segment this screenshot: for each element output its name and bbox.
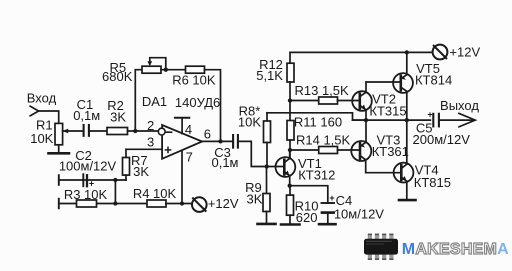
wire C3 to VT1 base: [239, 141, 283, 166]
svg-text:Выход: Выход: [440, 98, 479, 113]
resistor R8: [266, 113, 268, 121]
wire R3 R4 line: [59, 203, 147, 205]
capacitor C2: [82, 174, 84, 186]
wire R6 to output node: [205, 70, 221, 142]
capacitor C5: [432, 114, 434, 127]
svg-text:DA1: DA1: [142, 94, 167, 109]
svg-text:10K: 10K: [238, 114, 261, 129]
wire VT2 collector to VT5 base: [366, 82, 401, 92]
capacitor C4: [290, 186, 328, 203]
wire VT3 emitter: [365, 120, 367, 142]
transistor VT5: [393, 73, 413, 93]
svg-text:R11 160: R11 160: [294, 114, 342, 129]
node junction R3/R4 line: [113, 201, 117, 205]
svg-text:КТ815: КТ815: [414, 175, 451, 190]
svg-text:140УД6: 140УД6: [175, 95, 220, 110]
wire R1 bottom to ground: [58, 145, 60, 152]
svg-text:КТ315: КТ315: [369, 103, 406, 118]
transistor VT2: [352, 91, 372, 111]
transistor VT4: [394, 163, 414, 183]
node junction R11/R14: [288, 148, 292, 152]
svg-text:10K: 10K: [30, 131, 53, 146]
resistor R9: [266, 167, 268, 194]
node Вход input terminal arrow: [30, 106, 38, 116]
node junction R12/R13: [288, 98, 292, 102]
svg-text:0,1м: 0,1м: [73, 108, 100, 123]
resistor R4: [147, 200, 166, 207]
wire branch vertical: [114, 180, 116, 204]
wire VT5 collector: [406, 91, 408, 120]
node junction emitter rail left: [364, 118, 368, 122]
svg-text:3K: 3K: [133, 164, 149, 179]
wire feedback left vertical: [135, 70, 142, 131]
wire C1 to R2: [90, 130, 107, 132]
svg-text:3K: 3K: [247, 191, 263, 206]
node Выход output arrow: [459, 113, 475, 126]
node junction output/feedback: [218, 139, 222, 143]
capacitor C1: [83, 125, 85, 136]
wire R4 to supply: [166, 203, 192, 205]
svg-text:100м/12V: 100м/12V: [59, 159, 117, 174]
node junction C2/R3 branch: [113, 178, 117, 182]
ground under VT4: [399, 199, 416, 202]
svg-text:+: +: [329, 193, 334, 203]
wire op-amp pin3: [126, 148, 162, 150]
node junction VT1 emitter: [288, 184, 292, 188]
resistor R12: [287, 63, 294, 82]
wire input to R1 top: [39, 111, 59, 123]
svg-text:10м/12V: 10м/12V: [334, 207, 384, 222]
power +12V terminal top: [433, 45, 448, 60]
svg-text:3: 3: [147, 134, 154, 149]
svg-text:+12V: +12V: [449, 45, 480, 60]
node junction R5 tap: [164, 68, 168, 72]
svg-text:R3 10K: R3 10K: [64, 187, 108, 202]
wire R8 top to emitter rail: [267, 113, 366, 120]
svg-text:+: +: [427, 109, 432, 119]
ground under R10: [281, 223, 300, 226]
wire R11 to VT1 collector: [289, 140, 291, 158]
svg-text:+12V: +12V: [208, 196, 239, 211]
wire R5 to R6: [161, 69, 186, 71]
svg-text:0,1м: 0,1м: [211, 155, 238, 170]
wire VT2 emitter: [365, 110, 367, 120]
svg-text:Вход: Вход: [27, 91, 57, 106]
node junction top rail: [405, 50, 409, 54]
resistor R2: [107, 128, 128, 135]
ground under R9: [258, 223, 276, 226]
resistor R13: [290, 100, 319, 102]
op-amp DA1 triangle: [162, 125, 202, 159]
wire C5 to output arrow: [440, 119, 473, 121]
node junction rail VT5/VT4: [405, 118, 409, 122]
wire emitter rail: [353, 119, 431, 121]
wire pin 7 down: [181, 151, 183, 204]
svg-text:КТ814: КТ814: [415, 73, 452, 88]
resistor R6: [186, 66, 205, 73]
resistor R7: [125, 149, 127, 157]
svg-text:R6 10K: R6 10K: [172, 73, 216, 88]
svg-text:R13 1,5K: R13 1,5K: [294, 83, 349, 98]
power +12V terminal bottom: [192, 197, 207, 212]
svg-text:7: 7: [186, 149, 193, 164]
pin 4 terminal with bar: [181, 119, 183, 134]
svg-text:5,1K: 5,1K: [256, 68, 283, 83]
ground under R1: [49, 152, 70, 155]
wire VT3 collector to VT4 base: [366, 160, 402, 173]
svg-text:R4 10K: R4 10K: [133, 186, 177, 201]
svg-text:R14 1,5K: R14 1,5K: [296, 133, 351, 148]
wire VT4 emitter to ground: [406, 181, 408, 199]
resistor R5 trimmer: [142, 66, 161, 73]
wire VT5 emitter to rail: [406, 52, 408, 74]
transistor VT1: [276, 157, 296, 177]
transistor VT3: [351, 141, 371, 161]
svg-text:КТ312: КТ312: [298, 168, 335, 183]
resistor R1 potentiometer: [55, 123, 63, 144]
resistor R3: [77, 200, 97, 207]
svg-text:680K: 680K: [102, 69, 133, 84]
svg-text:2: 2: [147, 118, 154, 133]
resistor R14: [290, 149, 319, 151]
svg-text:4: 4: [185, 122, 192, 137]
logo IC chip icon: [368, 234, 372, 240]
svg-text:620: 620: [296, 210, 318, 225]
svg-text:6: 6: [204, 127, 211, 142]
wire top rail: [290, 52, 433, 63]
wire R2 to op-amp pin2: [128, 130, 159, 132]
svg-text:КТ361: КТ361: [372, 144, 409, 159]
wire VT1 collector: [289, 150, 291, 158]
wire R12 to R11: [289, 82, 291, 121]
resistor R11: [287, 121, 294, 141]
svg-text:MAKESHEMA: MAKESHEMA: [402, 241, 509, 258]
wire VT1 emitter: [289, 176, 291, 186]
wire VT4 collector: [406, 120, 408, 164]
resistor R10: [289, 186, 291, 195]
svg-text:3K: 3K: [110, 110, 126, 125]
node junction R2/feedback/pin2: [133, 129, 137, 133]
node junction VT1 base: [265, 164, 269, 168]
node junction pin7/R4: [180, 201, 184, 205]
wire C2 line: [59, 179, 126, 181]
ground under C4: [319, 223, 336, 226]
svg-text:200м/12V: 200м/12V: [413, 132, 471, 147]
capacitor C3: [232, 135, 234, 148]
wire op-amp output: [202, 140, 233, 142]
